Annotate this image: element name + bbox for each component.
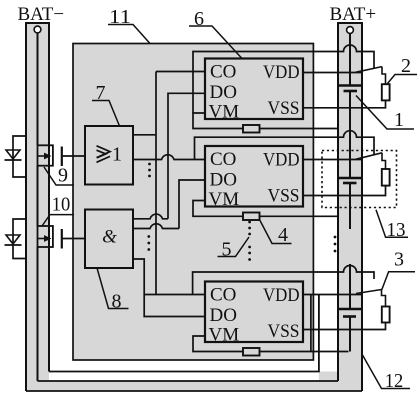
svg-text:12: 12	[385, 370, 404, 392]
label 6 leader line	[189, 26, 242, 59]
svg-text:VSS: VSS	[268, 186, 300, 207]
OR gate symbol (>=1)	[97, 146, 111, 163]
dots: resistor column lower	[248, 246, 251, 261]
resistor RVM2 (4)	[243, 213, 260, 221]
wire: DO2 riser	[179, 180, 205, 229]
wire: CO1 pin to riser	[156, 71, 205, 73]
BAT- terminal circle	[34, 26, 41, 33]
svg-text:VM: VM	[209, 325, 240, 346]
capacitor 3 bottom plate	[343, 315, 356, 318]
bottom wrap band (outer)	[26, 381, 362, 391]
wire: R0 drop from VDD3 to mid conductor bottom	[310, 295, 312, 352]
capacitor 1 bottom plate	[344, 90, 358, 93]
switch S1 blade	[356, 67, 382, 73]
diode D1 branch loop	[13, 136, 26, 177]
svg-text:9: 9	[58, 165, 68, 187]
transistor Q1 substrate arrow	[38, 155, 47, 157]
bottom wrap line outer (BAT+ right line to BAT- left line)	[26, 390, 362, 392]
svg-text:CO: CO	[210, 62, 236, 83]
svg-text:BAT+: BAT+	[330, 4, 377, 25]
wire: S1 to resistor 2 top	[382, 67, 386, 85]
transistor Q2 channel jog box	[38, 226, 53, 247]
svg-text:7: 7	[96, 82, 106, 104]
wire: DO3 riser V1	[133, 259, 205, 317]
dots: resistor column upper	[248, 221, 251, 236]
svg-text:3: 3	[394, 249, 404, 271]
wire: BAT- bus right line	[48, 23, 50, 372]
svg-text:CO: CO	[210, 285, 236, 306]
resistor 3	[382, 307, 390, 323]
wire: VSS3 to resistor 3 bottom	[303, 323, 386, 330]
IC U2 box	[205, 146, 303, 207]
dots: OR gate more inputs	[148, 163, 151, 178]
resistor 2	[382, 84, 390, 100]
label 11 leader line	[108, 25, 150, 44]
BAT+ bus right line	[361, 23, 363, 391]
svg-text:4: 4	[278, 224, 288, 246]
transistor Q2 gate bar	[61, 229, 63, 249]
bottom wrap band (inner right)	[319, 372, 338, 382]
wire: CO riser x=156 (CO1/CO3 to OR)	[155, 72, 157, 295]
dots: bus continuation	[334, 236, 337, 253]
label 1 leader line	[356, 96, 414, 130]
IC U1 box	[205, 59, 303, 120]
capacitor 1 top plate	[338, 84, 363, 87]
transistor Q1 channel jog box	[38, 145, 53, 165]
wire: VDD3 to switch/resistor 3	[303, 294, 362, 296]
wire: BAT- bus top cap	[25, 22, 50, 24]
BAT+ bus band	[338, 23, 362, 391]
capacitor 3 top plate	[338, 308, 361, 311]
bottom wrap line middle (BAT+ left line to BAT- middle)	[38, 380, 339, 382]
svg-text:VSS: VSS	[268, 98, 300, 119]
svg-text:DO: DO	[210, 305, 237, 326]
capacitor 2 top plate	[338, 177, 362, 180]
BAT- bus band	[26, 23, 49, 391]
wire: BAT- middle conductor segment 3 (FET2 to bottom wrap)	[37, 247, 39, 381]
wire: VSS2 to resistor bottom	[303, 186, 386, 196]
wire: middle conductor segment C1 to C2	[349, 91, 351, 178]
wire: BAT- middle conductor segment 1 (terminal to FET1)	[37, 33, 39, 145]
label 2 leader line	[388, 75, 418, 84]
dots: AND gate more inputs	[147, 235, 150, 251]
wire: middle conductor segment C2 down to break	[349, 183, 351, 229]
label 12 leader line	[363, 355, 411, 389]
svg-text:VM: VM	[209, 189, 240, 210]
svg-text:VDD: VDD	[263, 62, 300, 83]
BAT+ bus top cap	[337, 22, 363, 24]
wire: top wire cell1 (hop over mid conductor, drop to switch)	[193, 45, 374, 113]
wire: AND input 1 with hop over CO riser	[133, 214, 168, 219]
svg-text:VM: VM	[209, 102, 240, 123]
IC U3 box	[205, 282, 303, 343]
wire: DO1 riser	[168, 93, 205, 219]
wire: BAT- bus left line	[25, 23, 27, 391]
svg-text:11: 11	[109, 6, 131, 28]
svg-text:VDD: VDD	[263, 285, 300, 306]
svg-text:1: 1	[112, 144, 122, 166]
wire: CO3 pin horizontal	[144, 294, 205, 296]
diode D2 branch loop	[13, 219, 26, 259]
BAT+ terminal circle	[347, 27, 354, 34]
resistor R13	[382, 169, 390, 186]
diode D1 symbol	[6, 150, 20, 159]
wire: middle conductor segment resume to C3	[349, 264, 351, 309]
wire: Q2 gate lead to AND gate	[62, 238, 85, 240]
wire: S3 to resistor 3 top	[382, 290, 386, 307]
resistor RVM3	[243, 348, 260, 356]
svg-text:DO: DO	[210, 82, 237, 103]
label 9 leader line	[44, 167, 74, 185]
svg-text:&: &	[102, 227, 117, 248]
wire: BAT- middle conductor segment 2 (FET1 to FET2)	[37, 166, 39, 226]
wire: VM2 with sense resistor	[193, 201, 338, 217]
wire: OR input 1	[133, 134, 156, 136]
dashed box 13	[322, 151, 397, 208]
wire: S2 to resistor top	[382, 153, 386, 169]
wire: CO2 to OR input 2 with hop over DO1 riser	[133, 155, 205, 160]
OR gate U4 box	[85, 126, 133, 185]
wire: VSS1 to resistor 2 bottom	[303, 100, 386, 107]
svg-text:8: 8	[112, 291, 122, 313]
svg-text:CO: CO	[210, 149, 236, 170]
transistor Q2 substrate arrow	[38, 238, 47, 240]
label 5 leader line	[218, 237, 250, 257]
switch S3 blade	[356, 290, 382, 294]
wire: BAT+ middle conductor segment 1 (terminal to C1)	[349, 34, 351, 86]
svg-text:10: 10	[52, 194, 71, 216]
wire: VM1 with sense resistor	[193, 113, 338, 129]
wire: AND input 2 with hop over CO riser	[133, 224, 179, 229]
BAT+ bus left line	[337, 23, 339, 381]
controller block 11 (gray background box)	[73, 44, 313, 361]
wire: VDD2 to switch/resistor 13	[303, 159, 362, 161]
wire: top wire cell3	[193, 266, 374, 295]
wire: VM3 with sense resistor	[193, 336, 349, 352]
label 10 leader line	[42, 215, 74, 226]
wire: Q1 gate lead to OR gate	[62, 155, 85, 157]
label 4 leader line	[260, 220, 292, 244]
svg-text:DO: DO	[210, 169, 237, 190]
label 13 leader line	[376, 210, 408, 238]
label 7 leader line	[92, 101, 120, 127]
resistor RVM1	[243, 125, 260, 133]
switch S2 blade	[356, 153, 382, 159]
svg-text:6: 6	[194, 8, 204, 30]
transistor Q1 gate bar	[61, 147, 63, 167]
bottom wrap line inner (R1 to left bus right line)	[49, 295, 319, 372]
wire: VDD1 to switch/resistor	[303, 72, 362, 74]
AND gate U5 box	[85, 210, 133, 269]
capacitor 2 bottom plate	[343, 182, 357, 185]
svg-text:13: 13	[387, 219, 406, 241]
svg-text:BAT−: BAT−	[18, 4, 65, 25]
wire: top wire cell2	[195, 131, 375, 160]
wire: middle conductor segment C3 to bottom	[349, 317, 351, 352]
label 8 leader line	[97, 268, 129, 309]
svg-text:5: 5	[222, 239, 232, 261]
label 3 leader line	[382, 272, 415, 290]
diode D2 symbol	[6, 235, 20, 244]
svg-text:1: 1	[394, 109, 404, 131]
svg-text:2: 2	[401, 55, 411, 77]
svg-text:VSS: VSS	[268, 321, 300, 342]
svg-text:VDD: VDD	[263, 150, 300, 171]
